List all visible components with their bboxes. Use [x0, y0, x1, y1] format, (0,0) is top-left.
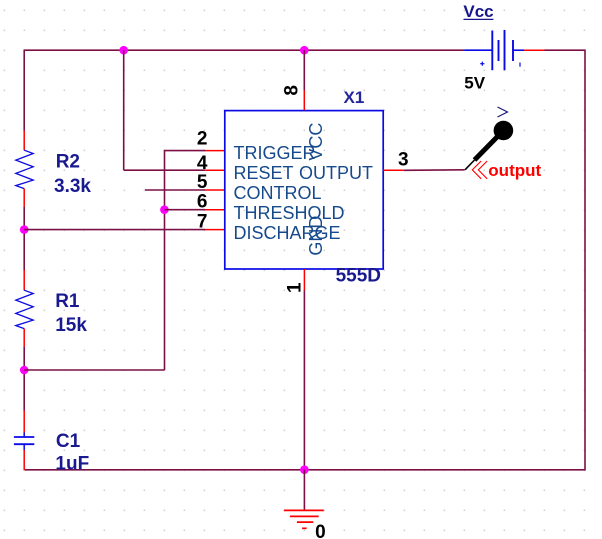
- wire bottom rail: [25, 469, 586, 471]
- pin 5 stub: [205, 189, 225, 191]
- svg-text:2: 2: [197, 128, 208, 149]
- svg-text:1: 1: [284, 282, 305, 293]
- battery pin stub right: [524, 49, 544, 51]
- svg-text:C1: C1: [56, 431, 81, 452]
- junction node top-1: [119, 46, 128, 55]
- svg-text:Vcc: Vcc: [463, 2, 493, 21]
- junction node gnd: [300, 465, 309, 474]
- wire left rail lower: [23, 347, 25, 411]
- svg-text:RESET: RESET: [234, 163, 294, 183]
- wire pin6 threshold: [165, 209, 206, 211]
- svg-text:3: 3: [398, 149, 409, 170]
- resistor R1: [16, 270, 33, 347]
- pin 6 stub: [205, 209, 225, 211]
- junction node R2/R1: [20, 225, 29, 234]
- wire output net: [404, 169, 465, 172]
- pin 2 stub: [205, 150, 225, 152]
- wire pin5 control: [145, 189, 205, 191]
- svg-text:5: 5: [197, 172, 208, 193]
- wire trigger net horizontal: [24, 369, 164, 371]
- wire trigger net vertical: [164, 150, 166, 370]
- junction node R1/C1: [20, 366, 29, 375]
- svg-text:7: 7: [197, 212, 208, 233]
- svg-text:555D: 555D: [336, 266, 381, 287]
- wire right rail: [584, 50, 586, 470]
- svg-text:R2: R2: [56, 151, 80, 172]
- resistor R2: [16, 131, 33, 207]
- svg-text:output: output: [488, 161, 541, 180]
- wire left rail middle: [23, 207, 25, 270]
- svg-text:THRESHOLD: THRESHOLD: [234, 203, 345, 223]
- svg-text:6: 6: [197, 191, 208, 212]
- wire ground drop: [303, 470, 305, 511]
- svg-text:15k: 15k: [55, 315, 87, 336]
- svg-text:5V: 5V: [464, 73, 485, 92]
- battery Vcc underline: [464, 18, 494, 20]
- svg-text:4: 4: [197, 153, 208, 174]
- pin 4 stub: [205, 169, 225, 171]
- junction node top-2: [300, 46, 309, 55]
- svg-text:OUTPUT: OUTPUT: [299, 163, 373, 183]
- ground: [284, 510, 324, 528]
- svg-text:GND: GND: [306, 216, 326, 256]
- svg-text:CONTROL: CONTROL: [234, 183, 322, 203]
- svg-text:VCC: VCC: [306, 123, 326, 161]
- junction node threshold: [160, 205, 169, 214]
- svg-text:1uF: 1uF: [55, 454, 89, 475]
- svg-text:8: 8: [281, 85, 302, 96]
- wire pin8 vcc net: [303, 50, 305, 90]
- svg-text:R1: R1: [55, 291, 80, 312]
- wire pin4 reset vertical: [123, 50, 125, 170]
- svg-text:0: 0: [315, 522, 326, 539]
- wire left rail: [23, 50, 25, 131]
- probe output: [465, 107, 513, 179]
- pin 8 stub: [303, 90, 305, 110]
- wire pin4 reset horizontal: [124, 169, 205, 171]
- svg-text:TRIGGER: TRIGGER: [234, 143, 316, 163]
- svg-text:3.3k: 3.3k: [54, 176, 91, 197]
- wire top rail: [24, 49, 586, 51]
- IC X1 555 timer body: [225, 111, 383, 269]
- pin 7 stub: [205, 229, 225, 231]
- svg-text:X1: X1: [344, 88, 365, 107]
- wire pin1 gnd net: [303, 290, 305, 470]
- wire discharge net: [24, 229, 205, 231]
- capacitor C1: [14, 410, 34, 470]
- pin 1 stub: [303, 269, 305, 290]
- pin 3 stub: [383, 169, 404, 171]
- battery V1: [464, 30, 524, 70]
- wire pin2 trigger: [165, 150, 206, 152]
